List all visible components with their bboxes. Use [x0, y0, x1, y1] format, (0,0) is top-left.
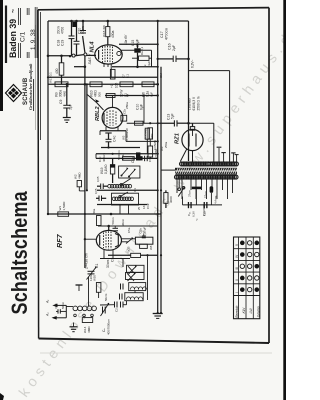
resistor 0,1M vert right: [145, 128, 154, 154]
wire H5 resistor bus: [48, 83, 158, 85]
mains switch: [178, 179, 185, 205]
svg-text:C2: C2: [115, 308, 119, 312]
svg-text:4700cm: 4700cm: [164, 28, 168, 40]
trimmer C2 variable: [101, 293, 110, 316]
svg-text:III: III: [235, 267, 239, 270]
trimmer blob C: [72, 22, 77, 27]
tuning cap C1 variable: [87, 264, 100, 280]
antenna coil circles: [73, 306, 96, 311]
tube RF7 electrodes: [100, 231, 119, 249]
wire H2: [48, 55, 72, 57]
svg-text:II: II: [235, 279, 239, 281]
svg-text:C1: C1: [95, 264, 99, 268]
wire H8 bus y95: [105, 94, 159, 96]
antenna terminal A1: [46, 300, 67, 307]
label 30cm C3: [106, 258, 115, 268]
label W3 250: [160, 141, 168, 151]
resistor under pot: [140, 244, 153, 250]
capacitor C11: [54, 301, 66, 313]
label C18 C19 values: [57, 26, 65, 46]
svg-text:C4b: C4b: [131, 157, 135, 163]
svg-text:50cm: 50cm: [111, 217, 115, 225]
capacitor C18: [69, 21, 75, 56]
label 0,1M: [100, 164, 108, 174]
svg-text:610/6,3 V: 610/6,3 V: [192, 96, 196, 111]
coil box bottom 1: [125, 293, 143, 301]
fuse blob: [210, 186, 218, 205]
svg-text:6,3V~: 6,3V~: [191, 59, 195, 68]
label C14: [159, 72, 163, 78]
caps pair mid: [115, 302, 124, 308]
wire NL4 right loop: [121, 50, 152, 67]
tube NL4 envelope: [95, 45, 122, 64]
label 0,1 near osc: [133, 188, 141, 210]
tube RZ1 envelope: [182, 129, 203, 150]
stubs under B2: [120, 205, 129, 214]
black scan edge strip left top: [0, 0, 3, 111]
svg-text:C12: C12: [146, 203, 150, 209]
grid cap box: [121, 108, 127, 121]
chassis T bar: [188, 187, 208, 205]
title double rules date: [27, 8, 29, 58]
antenna terminal A2: [46, 312, 67, 320]
svg-text:4700: 4700: [60, 27, 64, 34]
svg-text:Schaltschema: Schaltschema: [8, 191, 32, 315]
svg-text:W20: W20: [93, 275, 97, 281]
svg-text:RF7: RF7: [55, 233, 64, 248]
svg-text:10a 6V: 10a 6V: [124, 34, 128, 45]
tube RF7 bottom pins: [100, 250, 130, 259]
lead C10 down: [143, 96, 145, 124]
tube RZ1 plates: [189, 130, 196, 147]
resistor 0,57M vert: [148, 141, 158, 159]
svg-text:KW: KW: [242, 307, 246, 313]
terminal T bar: [76, 285, 83, 291]
resistor 400 vert: [55, 56, 64, 85]
logo SCHAUB diamond: [6, 85, 22, 102]
wire H4: [48, 76, 158, 78]
resistor W1 1,5M on H15: [58, 201, 69, 216]
svg-text:0,1: 0,1: [126, 74, 130, 78]
svg-text:6μF: 6μF: [150, 92, 154, 97]
wire antenna mid: [66, 301, 126, 307]
label 6V: [124, 34, 128, 45]
svg-text:1,5MΩ: 1,5MΩ: [62, 201, 66, 211]
wire H2b: [72, 55, 84, 56]
capacitor osc1: [96, 176, 108, 189]
lead tube2 top: [112, 96, 114, 108]
svg-text:30cm: 30cm: [121, 218, 125, 226]
resistor W18 100: [106, 21, 110, 45]
svg-text:0,1: 0,1: [133, 188, 137, 192]
wires bottom verticals: [123, 255, 148, 300]
capacitor 50cm near tube: [111, 217, 118, 231]
svg-text:Baden 39: Baden 39: [8, 19, 18, 58]
wire bus x157: [157, 21, 159, 313]
wire right bus x188: [188, 21, 190, 161]
labels under H5 row2: [63, 90, 154, 97]
svg-text:I: I: [235, 292, 239, 293]
svg-text:0,05: 0,05: [96, 176, 100, 182]
logo underline: [33, 79, 35, 111]
logo text SCHAUB: [23, 77, 29, 105]
svg-text:W19: W19: [100, 167, 104, 174]
tube RF7 envelope: [96, 230, 121, 250]
label 30cm2: [121, 218, 125, 226]
resistor W14 4M: [82, 318, 92, 333]
transformer bottom taps: [177, 179, 233, 199]
svg-text:4 Amp.: 4 Amp.: [214, 195, 218, 204]
title C/1: [20, 31, 27, 42]
tube RZ1 bottom leads: [180, 149, 192, 162]
wire H12 y158: [96, 157, 158, 159]
resistor row W10: [90, 82, 103, 97]
label C17 4700cm: [160, 28, 168, 40]
wire H3 left segment: [74, 65, 86, 68]
svg-text:1μF: 1μF: [69, 104, 73, 110]
label 6,3V: [191, 59, 195, 68]
black scan edge strip right: [283, 0, 286, 400]
title Baden 39: [8, 9, 18, 58]
variable inductor box: [119, 166, 140, 178]
svg-text:C15: C15: [131, 40, 135, 46]
wire H15 bus: [48, 213, 161, 215]
IF transformer box B2: [112, 193, 139, 205]
svg-text:Bereich: Bereich: [235, 306, 239, 318]
svg-text:A₂: A₂: [46, 312, 50, 317]
tube NL4 electrodes: [99, 46, 121, 63]
trimmer boxes with arrows: [126, 265, 145, 281]
wire H3 tube1 row: [112, 66, 158, 68]
svg-text:C9: C9: [59, 100, 63, 104]
wire L1 to transformer: [189, 71, 230, 162]
svg-text:4μF: 4μF: [147, 61, 151, 66]
svg-text:4MΩ: 4MΩ: [87, 326, 91, 333]
svg-text:W8: W8: [149, 245, 153, 250]
capacitor C13: [158, 120, 190, 126]
svg-text:C₂₁: C₂₁: [187, 212, 191, 216]
tube NL4 left pin: [87, 54, 96, 56]
resistor row W9: [55, 82, 69, 97]
svg-text:C4c: C4c: [113, 135, 117, 142]
wire bus x84: [84, 56, 86, 269]
svg-text:C19: C19: [60, 40, 64, 46]
svg-text:C16: C16: [168, 43, 172, 50]
svg-text:3000: 3000: [169, 196, 173, 203]
svg-text:50cm: 50cm: [61, 301, 65, 309]
svg-text:25μF: 25μF: [136, 39, 140, 47]
label W17: [49, 72, 53, 83]
label RZ1: [175, 133, 181, 144]
svg-text:280a: 280a: [125, 102, 129, 109]
wire L2 to transformer: [189, 123, 214, 162]
wire stub x96: [95, 154, 97, 159]
coil box bottom 2: [129, 283, 147, 291]
capacitor osc2: [94, 188, 106, 201]
wire tube2 row: [127, 122, 158, 124]
svg-text:W17 0,1: W17 0,1: [49, 72, 53, 83]
transformer core hatched: [175, 168, 240, 175]
svg-text:Ra 0,1: Ra 0,1: [140, 46, 144, 55]
svg-text:105: 105: [115, 82, 119, 88]
wire bus x161: [160, 67, 162, 313]
svg-text:C3: C3: [111, 258, 115, 262]
wire H9: [101, 147, 140, 149]
svg-text:W18 3W: W18 3W: [102, 25, 106, 37]
svg-text:25: 25: [137, 206, 141, 210]
label AF7: [55, 233, 64, 248]
svg-text:40a: 40a: [92, 209, 96, 214]
tube RBL2 electrodes: [104, 110, 116, 125]
wire into core left: [161, 169, 175, 171]
capacitor C20 with switch: [78, 21, 87, 53]
logo text Grossdeutscher Rundfunk: [27, 63, 33, 110]
svg-text:5μF: 5μF: [171, 113, 175, 119]
label 6,3V heater: [192, 211, 196, 217]
scan fold line: [40, 352, 272, 354]
svg-text:400cm: 400cm: [102, 152, 106, 162]
svg-text:4MΩ: 4MΩ: [78, 172, 82, 179]
resistor 300 horiz: [125, 102, 143, 125]
title date 1.9.38: [30, 29, 37, 50]
tube RZ1 top nipple: [190, 123, 194, 130]
label Cx: [102, 308, 119, 335]
wire left bus: [47, 21, 49, 214]
svg-text:0,35MΩ: 0,35MΩ: [144, 128, 148, 139]
resistor Ra inline: [132, 46, 152, 60]
wire H10: [96, 153, 158, 155]
svg-text:500: 500: [98, 92, 102, 97]
svg-text:2×430 cm: 2×430 cm: [85, 253, 89, 269]
tube RF7 side leads: [84, 238, 135, 242]
svg-text:0,05MΩ: 0,05MΩ: [153, 140, 157, 150]
label 220V: [202, 204, 206, 216]
wire C1 to coil: [88, 277, 90, 307]
title right double rule: [35, 7, 37, 58]
wire y141: [126, 140, 158, 142]
label 2x430cm: [85, 253, 89, 269]
wire H13 bus: [97, 189, 158, 191]
svg-text:400a: 400a: [111, 30, 115, 38]
switch arm osc: [120, 179, 131, 186]
coil row 1: [108, 184, 132, 188]
svg-text:400: 400: [55, 68, 59, 74]
switch arm osc2: [119, 192, 128, 198]
svg-text:NL4: NL4: [90, 41, 96, 53]
svg-text:LW: LW: [249, 308, 253, 314]
resistor vert 105: [110, 69, 119, 88]
resistor W25 row: [108, 246, 158, 257]
resistor W right vert: [164, 190, 173, 208]
capacitor C4b blob: [131, 152, 140, 163]
resistor row W11: [120, 82, 134, 97]
label C4c 400cm: [98, 152, 106, 162]
ground right bottom: [153, 313, 163, 318]
label 4uF right of tube: [143, 61, 151, 66]
tube RF7 top pin: [107, 225, 110, 231]
svg-text:A₁: A₁: [46, 300, 50, 304]
mains wire with caps C21 C22: [183, 202, 223, 221]
black scan mark bottom left: [0, 393, 4, 400]
wire H3b: [119, 43, 158, 45]
wire H14 bus: [97, 204, 148, 206]
svg-text:W25: W25: [127, 246, 131, 252]
svg-text:Leerlauf: Leerlauf: [188, 97, 192, 110]
svg-text:C11: C11: [54, 303, 58, 309]
svg-text:4MΩ: 4MΩ: [63, 90, 67, 97]
svg-text:0,1MΩ: 0,1MΩ: [104, 164, 108, 174]
resistor on H12: [123, 156, 143, 160]
heading Schaltschema: [8, 191, 32, 315]
svg-text:250a: 250a: [164, 141, 168, 148]
tube RBL2 envelope: [102, 107, 123, 128]
transformer winding bottom: [175, 175, 239, 179]
svg-text:~: ~: [195, 218, 200, 221]
label 0,05M: [153, 140, 157, 150]
svg-text:0,4MΩ/18: 0,4MΩ/18: [125, 128, 129, 141]
svg-text:5000cm: 5000cm: [117, 149, 121, 160]
resistor on H8: [106, 94, 115, 98]
label 100: [102, 25, 115, 38]
wire bus x86: [86, 84, 88, 191]
ground antenna: [70, 323, 78, 332]
title block rule: [5, 6, 7, 64]
svg-text:6,3V: 6,3V: [192, 211, 196, 217]
svg-text:~: ~: [11, 9, 18, 13]
transformer winding top: [180, 162, 239, 166]
svg-text:57cm: 57cm: [204, 190, 208, 198]
resistor 0,35M vert: [144, 128, 153, 142]
band switch contacts: [74, 314, 94, 317]
title double rules C/1: [19, 8, 21, 58]
arrow variable RF7: [126, 237, 133, 243]
svg-text:6μF: 6μF: [140, 104, 144, 110]
svg-text:0,1: 0,1: [124, 93, 128, 97]
label C7: [122, 74, 130, 78]
label 5000cm: [117, 149, 125, 160]
junction dot: [187, 58, 190, 61]
svg-text:1. 9. 38: 1. 9. 38: [30, 29, 37, 50]
svg-text:2500 Ω m: 2500 Ω m: [197, 96, 201, 110]
coil row 2: [112, 197, 133, 201]
svg-text:120a: 120a: [89, 274, 93, 281]
wire H11 y130: [100, 131, 126, 142]
capacitor small right: [145, 156, 152, 162]
svg-text:Gramo: Gramo: [256, 306, 260, 317]
switch contact circles: [69, 53, 87, 58]
svg-text:25μF: 25μF: [143, 227, 147, 234]
svg-text:C/1: C/1: [20, 31, 27, 42]
label C10 6uF: [136, 104, 144, 110]
capacitor C9 with ground: [59, 83, 73, 122]
resistor row W12: [142, 82, 155, 97]
label 6ASV: [88, 53, 92, 64]
capacitor C4c: [105, 133, 116, 148]
svg-text:C4b: C4b: [121, 154, 125, 160]
wire top bus: [48, 20, 189, 22]
tube RBL2 grid arrow: [87, 94, 104, 110]
label NL4: [90, 41, 96, 53]
resistor W vert above tube: [92, 209, 101, 226]
svg-text:+Ω: +Ω: [110, 83, 114, 88]
resistor W2 4M vert: [74, 172, 85, 191]
label W5: [121, 128, 129, 141]
svg-text:50cm: 50cm: [81, 26, 85, 34]
svg-text:RZ1: RZ1: [175, 133, 181, 144]
svg-text:C5a: C5a: [127, 227, 131, 233]
resistor 0,1M vert blacktop: [110, 158, 114, 183]
svg-text:2μF: 2μF: [172, 45, 176, 51]
label C16 2uF: [168, 43, 177, 51]
svg-text:37cm: 37cm: [188, 189, 192, 197]
tube NL4 bottom pins: [104, 64, 111, 78]
svg-text:· · · · · · · ·: · · · · · · · ·: [27, 94, 29, 104]
labels 163 C: [142, 203, 150, 209]
capacitor C19: [74, 21, 80, 56]
svg-text:400/7000cm: 400/7000cm: [107, 318, 111, 335]
svg-text:C6: C6: [148, 158, 152, 162]
wire corner left: [47, 213, 49, 215]
label Leerlauf block: [188, 96, 201, 111]
svg-text:110/220V: 110/220V: [202, 204, 206, 216]
label C13 5uF: [167, 113, 175, 120]
pot box with cap: [135, 234, 153, 245]
label C15 25uF: [131, 39, 140, 47]
wire H15b bus: [98, 225, 158, 227]
outer frame border: [35, 8, 269, 343]
tube RBL2 bottom stubs: [100, 126, 118, 135]
svg-text:30cm: 30cm: [106, 260, 110, 268]
svg-text:50cm: 50cm: [104, 293, 108, 301]
label RBL2: [95, 106, 101, 121]
svg-text:0,05: 0,05: [94, 188, 98, 194]
transformer top stubs: [217, 147, 239, 162]
caps left of coil boxes: [120, 284, 124, 300]
svg-text:C14: C14: [159, 72, 163, 78]
resistor 120 vert: [89, 274, 101, 298]
capacitor C16: [157, 56, 189, 62]
wire antenna vertical: [65, 305, 67, 317]
labels C5b 25uF: [127, 227, 147, 234]
capacitor C15 electrolytic: [134, 44, 140, 67]
svg-text:RBL2: RBL2: [95, 106, 101, 121]
band switch table: [234, 237, 261, 319]
